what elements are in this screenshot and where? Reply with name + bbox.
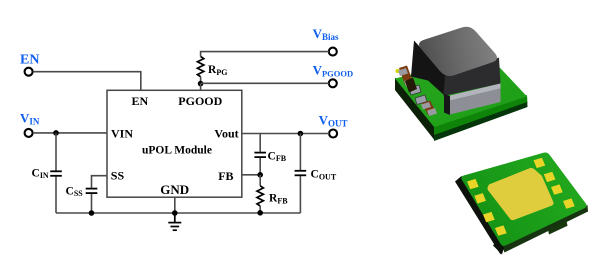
capacitor CFB (254, 153, 266, 158)
pin1 yellow marker (395, 69, 399, 73)
inductor top face (419, 27, 497, 76)
svg-text:GND: GND (160, 182, 189, 197)
chip capacitor 2 (421, 101, 437, 117)
resistor RPG (197, 57, 203, 77)
wire CFB branch lower (259, 158, 261, 175)
wire CIN branch lower (55, 177, 57, 214)
terminal VBias (329, 48, 337, 56)
wire COUT branch upper (299, 134, 301, 171)
inductor metal clip front (450, 89, 501, 115)
ground symbol (168, 213, 181, 230)
svg-text:EN: EN (132, 94, 149, 108)
wire Vout pin to VOUT terminal (242, 133, 329, 135)
svg-text:uPOL Module: uPOL Module (142, 144, 212, 156)
svg-text:FB: FB (218, 169, 233, 183)
wire CFB branch upper (259, 134, 261, 152)
resistor RFB (257, 186, 263, 206)
junction VIN/CIN (53, 130, 59, 136)
center pad (488, 168, 554, 220)
wire CIN branch upper (55, 133, 57, 171)
pad Q1 (534, 158, 546, 168)
svg-text:COUT: COUT (311, 169, 337, 182)
svg-text:VPGOOD: VPGOOD (313, 63, 354, 79)
svg-text:SS: SS (111, 168, 125, 182)
module box U1 (uPOL Module) (107, 90, 242, 197)
chip capacitor 1 (398, 66, 414, 87)
package side bottom (dark green) (502, 205, 588, 253)
pad 2 (415, 95, 427, 105)
svg-text:VIN: VIN (111, 126, 133, 140)
svg-text:RPG: RPG (208, 64, 227, 77)
capacitor CSS (86, 189, 98, 194)
svg-text:PGOOD: PGOOD (178, 94, 222, 108)
svg-text:CFB: CFB (268, 150, 287, 163)
junction FB (257, 172, 263, 178)
svg-text:VBias: VBias (313, 26, 339, 42)
package corner shadow bottom (493, 242, 504, 255)
junction GND/rail (172, 210, 178, 216)
package side left (dark) (455, 176, 504, 255)
svg-text:Vout: Vout (214, 127, 238, 141)
junction CSS/rail (89, 210, 95, 216)
package top face (461, 153, 586, 246)
board side right-front (green) (434, 95, 528, 139)
junction PGOOD (198, 81, 204, 87)
terminal VPGOOD (329, 79, 337, 87)
wire ground rail (56, 212, 300, 214)
pad Q2 (544, 172, 556, 182)
junction Vout/COUT (298, 131, 304, 137)
capacitor CIN (50, 171, 62, 176)
terminal VIN (25, 129, 33, 137)
svg-text:VIN: VIN (20, 110, 40, 126)
wire VBias to RPG (201, 52, 329, 57)
svg-text:EN: EN (20, 53, 39, 68)
capacitor COUT (295, 171, 307, 176)
pad P2 (474, 193, 486, 203)
wire FB junction to RFB (259, 175, 261, 186)
board top face (395, 55, 527, 127)
pad P4 (495, 225, 507, 235)
wire PGOOD pin stub (200, 84, 202, 91)
inductor body right-front face (444, 58, 501, 97)
inductor metal clip left end (444, 94, 450, 115)
svg-text:CSS: CSS (66, 185, 84, 198)
pad 1 (409, 85, 421, 95)
wire SS pin to CSS (92, 176, 108, 188)
3D render: uPOL package bottom view (bottom right) (455, 153, 588, 255)
board side left-front (dark) (395, 78, 434, 140)
svg-text:VOUT: VOUT (319, 112, 348, 128)
wire EN terminal to EN pin (33, 72, 141, 91)
wire VIN terminal to VIN pin (33, 132, 107, 134)
package tab (548, 221, 568, 235)
terminal VOUT (329, 130, 337, 138)
pad P3 (483, 212, 495, 222)
pad Q3 (551, 184, 563, 194)
svg-text:RFB: RFB (269, 193, 288, 206)
pad P1 (467, 179, 479, 189)
inductor body left-front face (411, 41, 446, 96)
wire PGOOD junction to VPGOOD terminal (201, 82, 329, 84)
svg-text:CIN: CIN (32, 167, 49, 180)
wire COUT branch lower (299, 176, 301, 213)
wire CSS to rail (91, 194, 93, 213)
wire RPG to PGOOD junction (200, 77, 202, 84)
terminal EN (25, 68, 33, 76)
inductor metal clip top highlight (450, 84, 501, 101)
wire GND pin stub (174, 197, 176, 213)
3D render: assembled uPOL module (top right) (395, 27, 528, 141)
chip capacitor 1 shadow (405, 78, 417, 93)
wire FB pin to junction (242, 174, 260, 176)
wire RFB to rail (259, 206, 261, 213)
junction RFB/rail (257, 210, 263, 216)
pad Q4 (563, 198, 575, 208)
